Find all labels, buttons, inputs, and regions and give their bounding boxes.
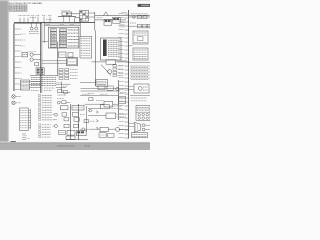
labels tr — [120, 22, 126, 24]
labels se fill — [96, 100, 104, 102]
comp se1 — [89, 98, 93, 101]
comp se2 — [89, 109, 92, 112]
switch S1 — [62, 12, 67, 16]
header tab — [138, 4, 150, 7]
svg-text:ELECTRICAL CIRCUIT DIAGRAM: ELECTRICAL CIRCUIT DIAGRAM — [9, 2, 42, 5]
connector grid top — [80, 11, 89, 22]
control unit box B — [133, 48, 148, 60]
wire stubs cg — [89, 12, 95, 14]
relay box c1b — [68, 53, 73, 57]
footer page number — [57, 145, 75, 147]
label block LB1 — [31, 77, 57, 79]
wire cl2 — [30, 57, 32, 59]
comp se3 — [84, 120, 89, 123]
lamp row 1 — [129, 16, 150, 18]
labels sw fill — [44, 87, 55, 89]
motor circle center — [108, 70, 112, 74]
wires c60 — [42, 60, 67, 62]
legend table — [9, 5, 27, 11]
wire br1 — [88, 107, 100, 109]
wire r95 — [130, 95, 150, 97]
page background — [0, 0, 150, 150]
stub wires bottom-left — [22, 133, 26, 135]
amp box right — [132, 133, 148, 138]
connector block bottom-left — [20, 108, 29, 131]
relay box c1 — [59, 52, 66, 57]
wires r12x — [129, 122, 135, 124]
bus vertical b1 — [69, 104, 71, 140]
bus vertical c4 — [118, 80, 120, 120]
left scan margin — [0, 0, 8, 150]
relay box left — [22, 52, 28, 57]
contact rows center — [59, 69, 63, 71]
bottom cluster boxes — [59, 131, 66, 135]
ECU box — [101, 38, 122, 60]
comp box L3 — [35, 62, 39, 65]
wires junction to bus — [30, 80, 41, 82]
wire cl1 — [42, 41, 48, 43]
fuse circles tl — [31, 23, 33, 28]
comp cluster c90 — [58, 90, 62, 93]
labels mid-top — [97, 17, 104, 19]
branch bus c2 — [57, 42, 59, 76]
bus vertical c5 — [61, 82, 63, 93]
fuse block column — [12, 24, 14, 92]
switch row b3 — [54, 125, 57, 128]
bus vertical b3 — [85, 106, 87, 132]
wire c75 — [30, 75, 58, 77]
wire run tc — [58, 15, 76, 17]
box br4 — [99, 133, 106, 137]
sensor box right — [134, 84, 149, 93]
wire c62 — [92, 61, 106, 63]
sensor circle L2 — [30, 58, 33, 61]
wires above center box — [44, 23, 80, 25]
contact cells B — [113, 17, 121, 23]
box c101 — [104, 101, 113, 107]
terminal list right — [130, 65, 150, 67]
junction box left — [21, 80, 30, 90]
double box c2 — [67, 58, 78, 66]
box b1 — [72, 105, 84, 110]
switch row b2 — [53, 119, 58, 121]
top bus wire — [14, 22, 95, 24]
label block LB3 — [39, 124, 41, 126]
bus vertical c3 — [94, 31, 96, 87]
box b2 — [60, 106, 68, 110]
bottom scan margin — [0, 143, 150, 150]
antenna symbol — [104, 12, 109, 16]
small box r118 — [119, 97, 126, 104]
wires c88 — [81, 87, 129, 89]
dark cells center-left — [36, 68, 44, 74]
label block LB2 — [39, 94, 41, 96]
wire c95 — [80, 95, 119, 97]
wire br2 — [88, 115, 106, 117]
arrow b1 — [96, 111, 98, 113]
center legend box — [48, 27, 79, 48]
wire top2 — [95, 19, 126, 21]
contact cells A — [104, 19, 112, 25]
motor M1 — [12, 95, 16, 99]
bus wire vertical mid — [94, 12, 96, 31]
main bus left — [40, 23, 42, 94]
sensor circle L1 — [30, 53, 33, 56]
comp se4 — [82, 128, 85, 131]
wire br3 — [90, 128, 100, 130]
branch bus c1 — [43, 23, 45, 42]
connector rows center-right — [113, 65, 117, 67]
feed wires top-left — [19, 18, 21, 23]
arrow b2 — [96, 120, 98, 122]
box c80 — [96, 80, 108, 87]
top scan shadow — [0, 0, 150, 2]
diagonal wire — [101, 65, 111, 76]
bus vertical b2 — [77, 104, 79, 140]
relay box tc — [75, 18, 80, 23]
control unit box A — [133, 31, 148, 44]
motor M2 — [12, 101, 16, 105]
bus vertical c6 — [79, 21, 81, 36]
pin table center — [80, 36, 92, 58]
page fold mark — [11, 141, 16, 143]
speaker matrix box — [136, 106, 150, 121]
wire long top — [95, 15, 150, 17]
symbol cluster c102 — [57, 101, 60, 104]
wires c84 — [56, 83, 70, 85]
wire b139 — [66, 139, 88, 141]
main bus right — [128, 10, 130, 139]
arrow b3 — [96, 127, 98, 129]
switch row b1 — [54, 113, 57, 116]
horn speaker — [134, 122, 141, 132]
wire r45 — [129, 45, 133, 47]
lamp row 2 — [129, 25, 150, 27]
